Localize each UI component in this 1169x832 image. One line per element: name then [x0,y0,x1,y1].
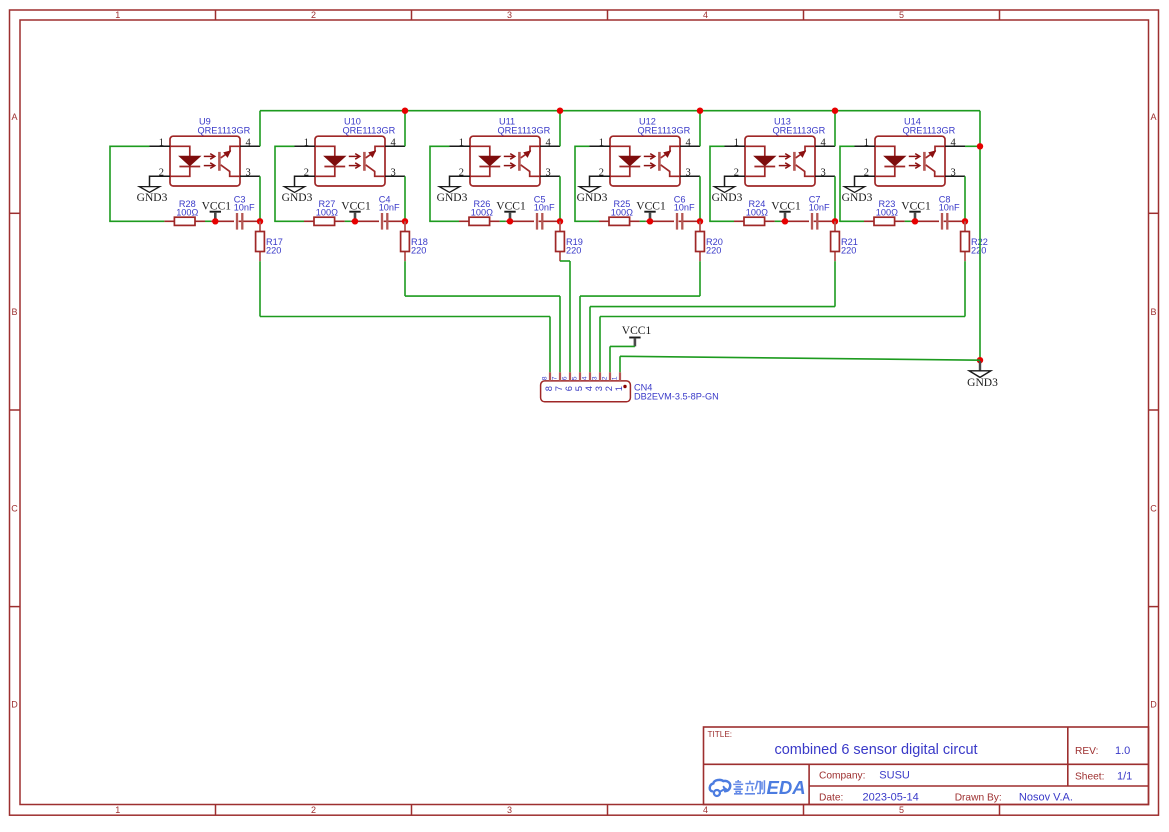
svg-text:100Ω: 100Ω [471,208,493,218]
svg-text:4: 4 [546,137,552,148]
LED triangle of U10 [324,156,345,165]
svg-text:GND3: GND3 [842,192,873,204]
resistor R28 100Ω [164,199,205,225]
svg-text:1: 1 [599,137,604,148]
wire pin3 drop U12 [699,176,701,221]
wire GND3 to pin1 [620,356,980,360]
svg-text:1: 1 [864,137,869,148]
svg-text:C: C [11,504,18,514]
wire through capacitor leads C7 [781,220,835,222]
wire to VCC node U14 [905,220,911,222]
svg-text:220: 220 [971,246,986,256]
wire left loop U10 [274,146,276,222]
resistor R25 100Ω [599,199,640,225]
wire pin1 U11 [430,145,450,147]
svg-text:4: 4 [703,805,708,815]
svg-text:4: 4 [391,137,397,148]
light arrows of U11 [504,154,515,169]
wire pin4 of U14 to right rail [965,145,980,147]
svg-text:QRE1113GR: QRE1113GR [638,125,691,135]
svg-text:B: B [1150,307,1156,317]
wire pin1 U10 [275,145,295,147]
resistor R24 100Ω [734,199,775,225]
wire top bus [260,110,980,112]
light arrows of U10 [349,154,360,169]
collector arrowhead of U11 [523,150,531,158]
svg-text:Date:: Date: [819,792,843,803]
svg-text:2: 2 [864,167,869,178]
title block [704,727,1149,805]
svg-text:2: 2 [599,167,604,178]
node junction at column of U10 [402,218,408,224]
svg-text:QRE1113GR: QRE1113GR [903,125,956,135]
phototransistor base bar of U13 [793,152,796,171]
power flag VCC1 of U12 [636,200,666,221]
wire R19 jog [560,260,570,262]
pin wires of U12 [590,146,701,186]
pin numbers of U13 [734,137,827,178]
svg-text:1: 1 [612,376,619,380]
wire pin7 column [559,296,561,372]
collector arrowhead of U13 [798,150,806,158]
svg-text:GND3: GND3 [437,192,468,204]
ground GND3 flag of U12 [579,187,599,193]
wire through capacitor leads C8 [911,220,965,222]
node bus junction [402,108,408,114]
wire through capacitor leads C3 [211,220,260,222]
svg-text:VCC1: VCC1 [901,200,931,212]
wire bottom row U13 [709,220,734,222]
node junction at column of U12 [697,218,703,224]
title block texts [708,730,1133,803]
wire pin3 column [599,317,601,373]
svg-text:2: 2 [602,376,609,380]
svg-text:3: 3 [592,376,599,380]
wire pin1 U13 [710,145,725,147]
svg-text:GND3: GND3 [137,192,168,204]
wire feeder pin7 [405,295,560,297]
pin numbers of U10 [304,137,397,178]
phototransistor base bar of U11 [518,152,521,171]
svg-text:GND3: GND3 [577,192,608,204]
node junction at column of U14 [962,218,968,224]
svg-text:100Ω: 100Ω [746,208,768,218]
ground GND3 flag of U13 [714,187,734,193]
JLC EDA logo [710,777,806,798]
svg-text:1: 1 [459,137,464,148]
collector arrowhead of U10 [368,150,376,158]
pin wires of U9 [150,146,261,186]
LED triangle of U9 [179,156,200,165]
svg-text:10nF: 10nF [234,203,255,213]
svg-text:1: 1 [304,137,309,148]
svg-text:4: 4 [686,137,692,148]
ground GND3 flag at right rail [967,361,998,389]
svg-text:DB2EVM-3.5-8P-GN: DB2EVM-3.5-8P-GN [634,392,719,402]
wire bottom row U11 [429,220,459,222]
wire through capacitor leads C5 [506,220,560,222]
node junction at column of U13 [832,218,838,224]
svg-text:220: 220 [566,246,581,256]
svg-text:SUSU: SUSU [879,770,910,782]
wire pin6 column [569,261,571,372]
wire pin1 U9 [110,145,150,147]
connector CN4 pin numbers [542,376,619,380]
wire to VCC node U10 [345,220,351,222]
power flag VCC1 of U10 [341,200,371,221]
svg-text:1/1: 1/1 [1117,770,1132,782]
light arrows of U9 [204,154,215,169]
LED triangle of U14 [884,156,905,165]
svg-text:1: 1 [115,10,120,20]
svg-text:1: 1 [159,137,164,148]
svg-text:220: 220 [841,246,856,256]
svg-text:VCC1: VCC1 [496,200,526,212]
light arrows of U13 [779,154,790,169]
svg-text:3: 3 [246,167,251,178]
svg-text:10nF: 10nF [674,203,695,213]
node bus junction [697,108,703,114]
collector arrowhead of U12 [663,150,671,158]
wire pin3 drop U9 [259,176,261,221]
svg-text:QRE1113GR: QRE1113GR [343,125,396,135]
node junction at column of U11 [557,218,563,224]
capacitor C4 10nF [379,194,400,229]
pin wires of U14 [855,146,966,186]
svg-text:Company:: Company: [819,771,865,782]
svg-text:220: 220 [706,246,721,256]
wire pin1 column [619,356,621,372]
svg-text:GND3: GND3 [712,192,743,204]
node bus junction [832,108,838,114]
pin numbers of U12 [599,137,692,178]
node junction right rail bottom [977,357,983,363]
svg-text:7: 7 [552,376,559,380]
pin wires of U10 [295,146,406,186]
wire through capacitor leads C6 [646,220,700,222]
wire pin1 U14 [840,145,855,147]
svg-text:3: 3 [951,167,956,178]
svg-text:combined 6 sensor digital circ: combined 6 sensor digital circut [774,742,977,758]
wire bottom row U12 [574,220,599,222]
phototransistor base bar of U9 [218,152,221,171]
svg-text:QRE1113GR: QRE1113GR [773,125,826,135]
svg-text:QRE1113GR: QRE1113GR [198,125,251,135]
svg-text:GND3: GND3 [967,377,998,389]
wire to VCC node U12 [640,220,646,222]
svg-text:2: 2 [304,167,309,178]
pin wires of U11 [450,146,561,186]
opto-sensor U14 QRE1113GR body [875,136,945,186]
wire R21 drop [834,261,836,306]
wire pin1 U12 [575,145,590,147]
node junction at column of U9 [257,218,263,224]
wire left loop U14 [839,146,841,222]
svg-text:EDA: EDA [767,777,806,798]
wire pin2 column [609,346,611,372]
wire through capacitor leads C4 [351,220,405,222]
svg-text:Nosov V.A.: Nosov V.A. [1019,791,1073,803]
wire bottom row U9 [109,220,164,222]
svg-text:QRE1113GR: QRE1113GR [498,125,551,135]
svg-text:8: 8 [542,376,549,380]
ground GND3 flag of U14 [844,187,864,193]
svg-text:1: 1 [613,386,624,391]
svg-text:6: 6 [562,376,569,380]
svg-text:2: 2 [311,805,316,815]
svg-text:1: 1 [734,137,739,148]
wire VCC1 to pin2 [610,345,635,347]
wire bottom row U14 [839,220,864,222]
svg-text:GND3: GND3 [282,192,313,204]
svg-text:A: A [1150,112,1156,122]
collector arrowhead of U9 [223,150,231,158]
resistor R23 100Ω [864,199,905,225]
svg-text:Sheet:: Sheet: [1075,771,1104,782]
svg-text:10nF: 10nF [534,203,555,213]
wire pin8 column [549,317,551,373]
svg-text:2: 2 [459,167,464,178]
wire left loop U9 [109,146,111,222]
svg-text:1: 1 [115,805,120,815]
svg-text:5: 5 [899,805,904,815]
opto-sensor U11 QRE1113GR body [470,136,540,186]
wire R18 drop [404,261,406,296]
resistor R19 220 [556,221,583,261]
wire pin4 riser U13 [834,111,836,147]
capacitor C3 10nF [234,194,255,229]
svg-text:3: 3 [821,167,826,178]
svg-text:2: 2 [734,167,739,178]
node junction at VCC of U14 [912,218,918,224]
svg-text:100Ω: 100Ω [876,208,898,218]
pin-1 marker dot of CN4 [623,385,626,388]
svg-text:3: 3 [391,167,396,178]
svg-text:2: 2 [159,167,164,178]
opto-sensor U12 QRE1113GR body [610,136,680,186]
ground GND3 flag of U9 [139,187,159,193]
connector CN4 pin names [543,386,624,391]
svg-text:10nF: 10nF [939,203,960,213]
pin wires of U13 [725,146,836,186]
opto-sensor U9 QRE1113GR body [170,136,240,186]
wire feeder pin5 [580,295,700,297]
pin numbers of U11 [459,137,552,178]
wire left loop U11 [429,146,431,222]
svg-text:5: 5 [899,10,904,20]
resistor R22 220 [961,221,988,261]
wire bottom row U10 [274,220,304,222]
svg-text:Drawn By:: Drawn By: [955,792,1002,803]
svg-text:C: C [1150,504,1157,514]
pin numbers of U9 [159,137,252,178]
connector CN4 DB2EVM-3.5-8P-GN [541,372,631,402]
light arrows of U12 [644,154,655,169]
wire pin5 column [579,296,581,372]
wire to VCC node U9 [205,220,211,222]
svg-text:220: 220 [266,246,281,256]
svg-text:VCC1: VCC1 [341,200,371,212]
wire feeder pin4 [590,306,835,308]
wire pin4 column [589,307,591,373]
node junction U14 pin4 [977,143,983,149]
capacitor C6 10nF [674,194,695,229]
svg-text:100Ω: 100Ω [316,208,338,218]
svg-text:4: 4 [821,137,827,148]
capacitor C8 10nF [939,194,960,229]
wire pin4 riser U12 [699,111,701,147]
resistor R18 220 [401,221,428,261]
capacitor C7 10nF [809,194,830,229]
wire right rail [979,111,981,361]
svg-text:10nF: 10nF [379,203,400,213]
wire pin4 riser U10 [404,111,406,147]
resistor R20 220 [696,221,723,261]
resistor R21 220 [831,221,858,261]
resistor R26 100Ω [459,199,500,225]
node bus junction [557,108,563,114]
svg-text:5: 5 [572,376,579,380]
wire R22 drop [964,261,966,316]
svg-text:2: 2 [311,10,316,20]
svg-text:D: D [1150,700,1157,710]
svg-text:1.0: 1.0 [1115,745,1130,757]
phototransistor base bar of U10 [363,152,366,171]
wire pin4 riser U11 [559,111,561,147]
node junction at VCC of U9 [212,218,218,224]
ground GND3 flag of U10 [284,187,304,193]
svg-text:VCC1: VCC1 [636,200,666,212]
LED triangle of U13 [754,156,775,165]
wire feeder pin8 [260,316,550,318]
wire to VCC node U13 [775,220,781,222]
svg-text:100Ω: 100Ω [611,208,633,218]
svg-text:3: 3 [507,10,512,20]
resistor R17 220 [256,221,283,261]
svg-text:B: B [11,307,17,317]
power flag VCC1 of U13 [771,200,801,221]
node junction at VCC of U13 [782,218,788,224]
light arrows of U14 [909,154,920,169]
wire pin3 drop U10 [404,176,406,221]
wire left loop U13 [709,146,711,222]
svg-text:VCC1: VCC1 [771,200,801,212]
ground GND3 flag of U11 [439,187,459,193]
wire pin3 drop U13 [834,176,836,221]
svg-text:4: 4 [582,376,589,380]
power flag VCC1 of U11 [496,200,526,221]
svg-text:3: 3 [546,167,551,178]
svg-text:VCC1: VCC1 [202,200,232,212]
power flag VCC1 of U9 [202,200,232,221]
wire pin4 riser U9 [259,111,261,147]
wire R20 drop [699,261,701,296]
node junction at VCC of U10 [352,218,358,224]
wire feeder pin3 [600,316,965,318]
wire left loop U12 [574,146,576,222]
LED triangle of U11 [479,156,500,165]
svg-text:4: 4 [246,137,252,148]
opto-sensor U10 QRE1113GR body [315,136,385,186]
wire pin3 drop U14 [964,176,966,221]
wire pin3 drop U11 [559,176,561,221]
wire to VCC node U11 [500,220,506,222]
resistor R27 100Ω [304,199,345,225]
svg-text:4: 4 [951,137,957,148]
svg-text:REV:: REV: [1075,746,1098,757]
svg-text:2023-05-14: 2023-05-14 [863,791,919,803]
power flag VCC1 of U14 [901,200,931,221]
capacitor C5 10nF [534,194,555,229]
power flag VCC1 at connector [622,325,652,347]
opto-sensor U13 QRE1113GR body [745,136,815,186]
svg-text:3: 3 [686,167,691,178]
svg-text:3: 3 [507,805,512,815]
LED triangle of U12 [619,156,640,165]
pin numbers of U14 [864,137,957,178]
phototransistor base bar of U14 [923,152,926,171]
svg-text:100Ω: 100Ω [176,208,198,218]
svg-text:10nF: 10nF [809,203,830,213]
svg-text:4: 4 [703,10,708,20]
collector arrowhead of U14 [928,150,936,158]
svg-text:A: A [11,112,17,122]
svg-text:D: D [11,700,18,710]
node junction at VCC of U12 [647,218,653,224]
wire R17 drop [259,261,261,316]
node junction at VCC of U11 [507,218,513,224]
svg-text:220: 220 [411,246,426,256]
phototransistor base bar of U12 [658,152,661,171]
svg-text:TITLE:: TITLE: [708,730,733,739]
svg-text:VCC1: VCC1 [622,325,652,337]
